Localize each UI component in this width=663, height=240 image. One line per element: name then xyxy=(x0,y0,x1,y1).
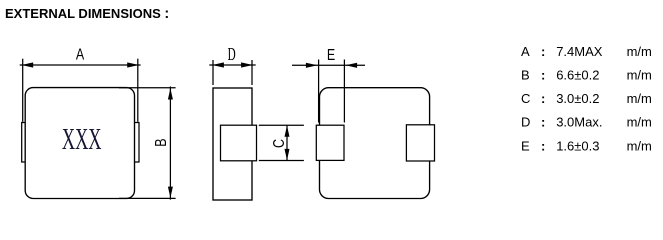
svg-text:3.0Max.: 3.0Max. xyxy=(556,115,602,130)
dimension C arrow top xyxy=(285,126,290,137)
dimension A line xyxy=(20,64,141,66)
dimension table xyxy=(521,44,652,154)
svg-text:B: B xyxy=(521,67,530,82)
table row C xyxy=(521,91,652,106)
table row A xyxy=(521,44,652,59)
dimension E line xyxy=(292,64,365,66)
dimension E extension line left xyxy=(318,60,320,123)
part marking XXX xyxy=(62,123,102,156)
table row D xyxy=(521,115,652,130)
svg-text:XXX: XXX xyxy=(62,123,102,156)
svg-text:EXTERNAL DIMENSIONS :: EXTERNAL DIMENSIONS : xyxy=(5,6,169,22)
dimension C extension line top xyxy=(259,124,304,126)
svg-text:m/m: m/m xyxy=(627,44,652,59)
table row E xyxy=(521,138,652,153)
svg-text:A: A xyxy=(76,46,85,64)
dimension E extension line right xyxy=(343,60,345,123)
terminal pad (side view) xyxy=(221,125,257,161)
label D xyxy=(228,46,236,65)
svg-text:C: C xyxy=(270,139,288,148)
svg-text:E: E xyxy=(327,46,335,64)
svg-text:7.4MAX: 7.4MAX xyxy=(556,44,603,59)
dimension B line xyxy=(169,87,171,200)
dimension C extension line bottom xyxy=(259,160,304,162)
dimension E arrow left (outside pointing right) xyxy=(306,63,318,68)
label A xyxy=(76,46,85,64)
svg-text::: : xyxy=(541,67,545,82)
svg-text::: : xyxy=(541,44,545,59)
body outline side view xyxy=(213,88,252,200)
table row B xyxy=(521,67,652,82)
svg-text:C: C xyxy=(521,91,530,106)
label B xyxy=(153,138,171,146)
svg-text:D: D xyxy=(521,115,530,130)
dimension B extension line top xyxy=(119,87,176,89)
svg-text:m/m: m/m xyxy=(627,67,652,82)
left terminal pad (bottom view) xyxy=(316,125,344,160)
dimension B arrow bottom xyxy=(168,187,173,198)
label C xyxy=(270,139,288,148)
dimension A extension line left xyxy=(22,59,24,122)
svg-text:B: B xyxy=(153,138,171,146)
dimension E arrow right (outside pointing left) xyxy=(345,63,357,68)
right terminal notch (top view) xyxy=(135,123,140,163)
svg-text::: : xyxy=(541,91,545,106)
dimension D arrow right xyxy=(241,62,253,67)
right terminal pad (bottom view) xyxy=(406,125,434,161)
body outline bottom view xyxy=(320,88,430,199)
dimension D extension line right xyxy=(251,60,253,85)
svg-text:m/m: m/m xyxy=(627,115,652,130)
label E xyxy=(327,46,335,64)
svg-text::: : xyxy=(541,138,545,153)
dimension D arrow left xyxy=(212,62,224,67)
svg-text:3.0±0.2: 3.0±0.2 xyxy=(556,91,599,106)
dimension D line xyxy=(209,64,255,66)
dimension B arrow top xyxy=(168,88,173,99)
title EXTERNAL DIMENSIONS xyxy=(5,6,169,22)
dimension B extension line bottom xyxy=(119,197,176,199)
dimension A arrow left xyxy=(22,62,34,67)
dimension C arrow bottom xyxy=(285,149,290,160)
dimension A extension line right xyxy=(137,59,139,122)
svg-text:6.6±0.2: 6.6±0.2 xyxy=(556,67,599,82)
svg-text:1.6±0.3: 1.6±0.3 xyxy=(556,138,599,153)
svg-text::: : xyxy=(541,115,545,130)
svg-text:m/m: m/m xyxy=(627,138,652,153)
dimension D extension line left xyxy=(212,60,214,85)
dimension C line xyxy=(286,125,288,160)
left terminal notch (top view) xyxy=(22,123,26,163)
svg-text:A: A xyxy=(521,44,530,59)
svg-text:E: E xyxy=(521,138,530,153)
dimension A arrow right xyxy=(127,62,139,67)
svg-text:m/m: m/m xyxy=(627,91,652,106)
body outline top view xyxy=(25,88,134,199)
svg-text:D: D xyxy=(228,46,236,65)
